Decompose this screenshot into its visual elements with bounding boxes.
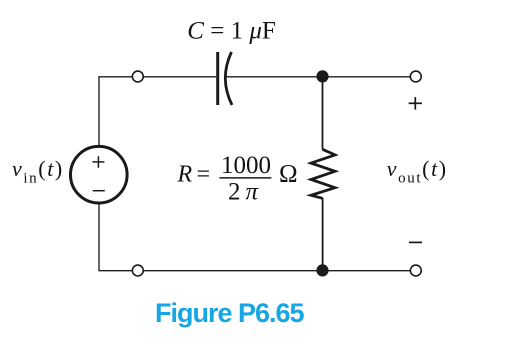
- svg-text:Figure P6.65: Figure P6.65: [155, 298, 305, 328]
- svg-text:R: R: [177, 162, 193, 188]
- svg-text:Ω: Ω: [279, 161, 298, 188]
- svg-text:=: =: [197, 162, 211, 188]
- svg-text:2π: 2π: [228, 178, 263, 205]
- svg-text:1000: 1000: [221, 152, 271, 179]
- svg-text:C = 1 μF: C = 1 μF: [187, 18, 276, 45]
